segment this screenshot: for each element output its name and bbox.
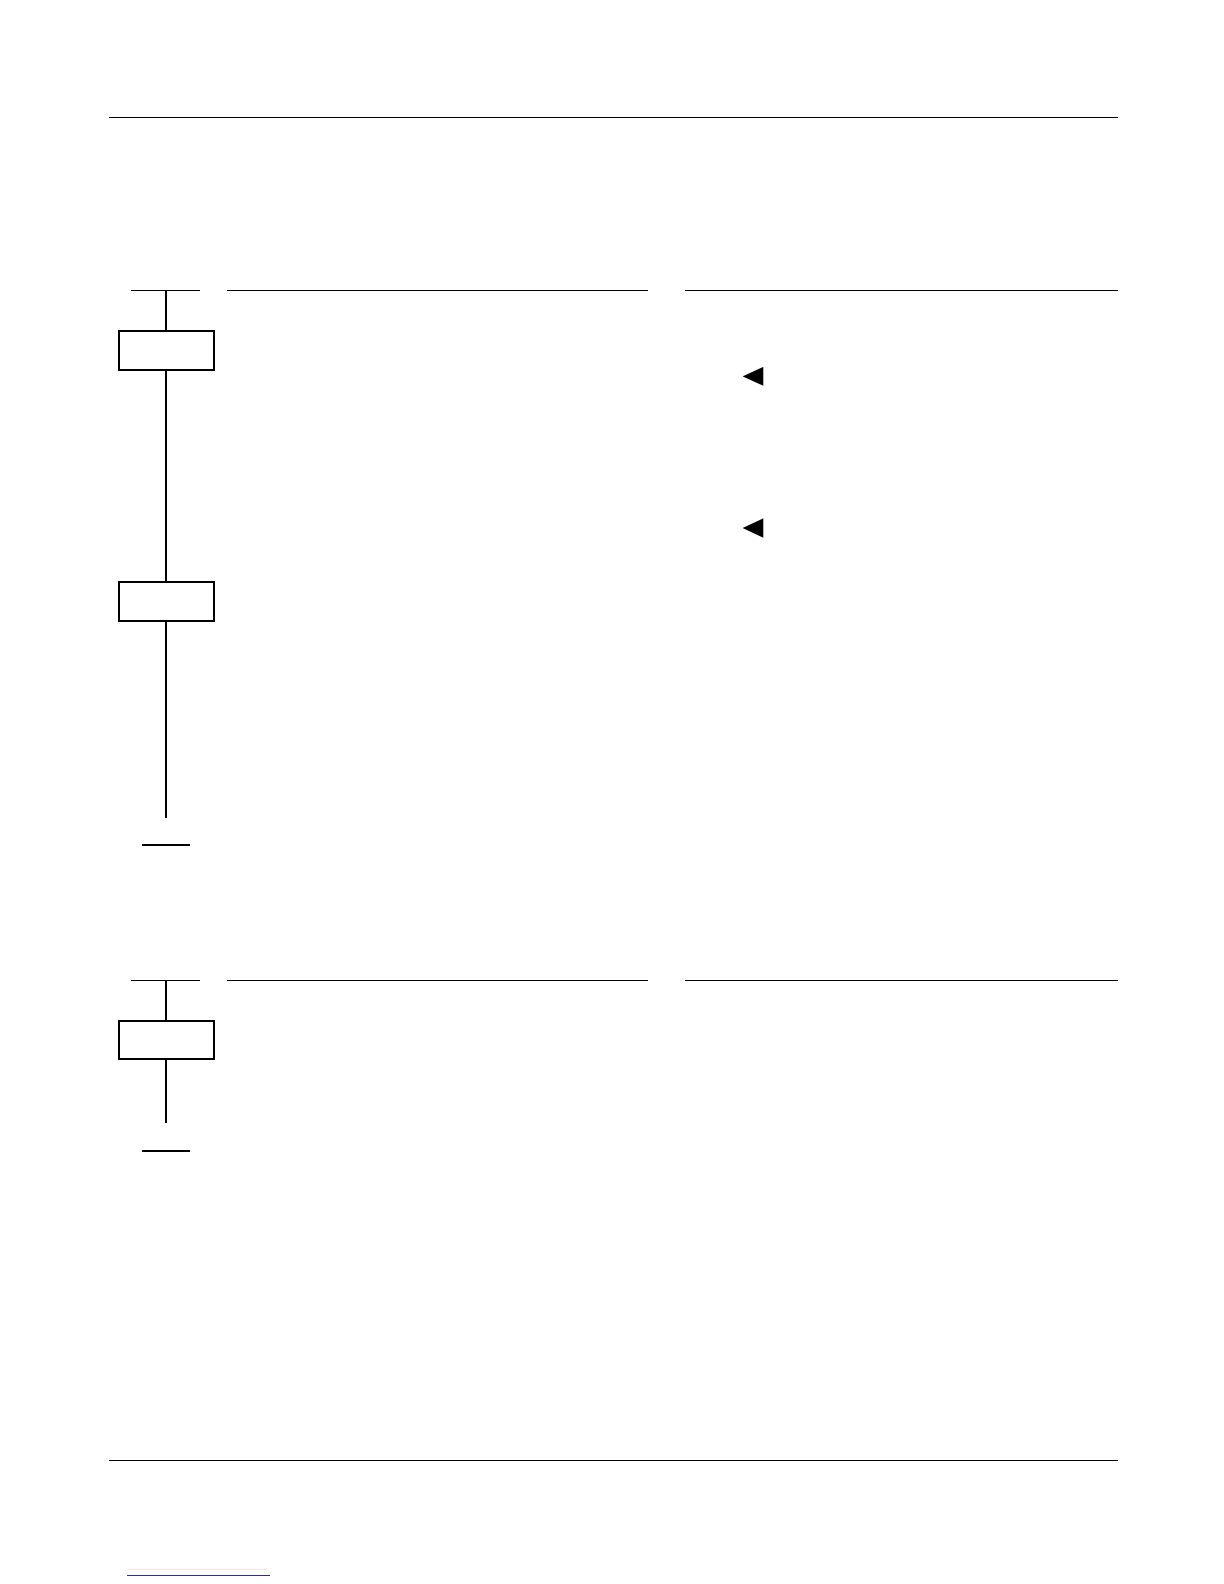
node: SFC rail tick (section 1)	[131, 290, 200, 292]
step box 3	[118, 1020, 215, 1061]
pointer triangle 2	[740, 515, 768, 542]
step box 2	[118, 581, 215, 622]
node: SFC rail tick (section 2)	[131, 980, 200, 982]
pointer triangle 1	[740, 364, 768, 390]
faint footer text remnant	[127, 1569, 269, 1570]
wire: tick to step box 1	[165, 290, 167, 330]
wire: below step box 3	[165, 1060, 167, 1124]
footer rule	[109, 1460, 1118, 1462]
header rule	[109, 117, 1118, 119]
node: end dash (section 1)	[142, 844, 190, 846]
step box 1	[118, 330, 215, 371]
column rule right (section 2)	[685, 980, 1118, 982]
footer hyperlink underline	[127, 1575, 271, 1577]
wire: below step box 2	[165, 621, 167, 818]
column rule left (section 2)	[227, 980, 648, 982]
node: end dash (section 2)	[142, 1150, 190, 1152]
wire: tick to step box 3	[165, 980, 167, 1020]
wire: step box 1 to step box 2	[165, 370, 167, 581]
column rule right (section 1)	[685, 290, 1118, 292]
column rule left (section 1)	[227, 290, 648, 292]
